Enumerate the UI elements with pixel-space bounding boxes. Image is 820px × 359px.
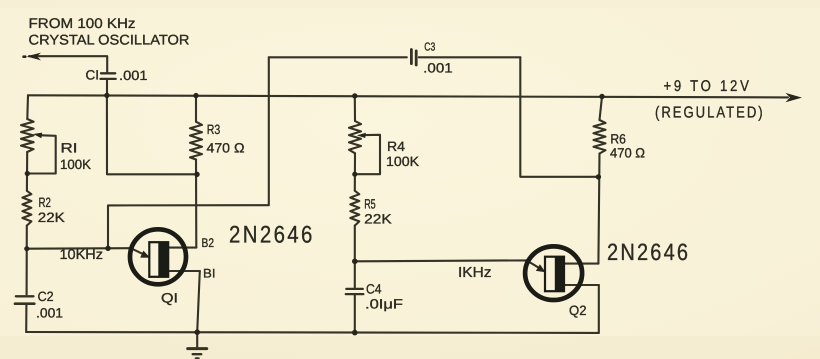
svg-text:CRYSTAL OSCILLATOR: CRYSTAL OSCILLATOR (29, 32, 190, 48)
svg-text:FROM 100 KHz: FROM 100 KHz (29, 15, 136, 31)
svg-text:C2: C2 (38, 289, 54, 304)
svg-text:470 Ω: 470 Ω (207, 141, 245, 156)
svg-text:IKHz: IKHz (458, 265, 492, 281)
svg-text:470 Ω: 470 Ω (610, 145, 645, 160)
svg-text:BI: BI (203, 267, 216, 281)
svg-text:QI: QI (161, 291, 178, 306)
svg-text:+9 TO 12V: +9 TO 12V (664, 78, 752, 95)
svg-text:R4: R4 (387, 139, 406, 154)
svg-text:100K: 100K (386, 154, 419, 169)
svg-text:22K: 22K (364, 212, 392, 227)
svg-text:R3: R3 (207, 122, 221, 137)
svg-text:R2: R2 (39, 195, 52, 210)
svg-text:10KHz: 10KHz (60, 246, 104, 262)
svg-text:.001: .001 (423, 60, 453, 75)
svg-text:22K: 22K (38, 210, 65, 225)
svg-text:RI: RI (61, 140, 78, 155)
svg-text:100K: 100K (60, 157, 91, 172)
svg-text:(REGULATED): (REGULATED) (655, 104, 765, 121)
svg-text:2N2646: 2N2646 (607, 239, 690, 265)
svg-text:C4: C4 (366, 282, 382, 297)
svg-text:CI: CI (86, 68, 100, 83)
svg-text:.001: .001 (36, 306, 63, 321)
svg-text:2N2646: 2N2646 (229, 222, 315, 249)
svg-text:C3: C3 (424, 42, 435, 54)
svg-text:R5: R5 (364, 197, 376, 212)
svg-text:Q2: Q2 (569, 303, 587, 318)
svg-text:B2: B2 (202, 236, 215, 250)
svg-text:.0IμF: .0IμF (365, 297, 403, 312)
svg-text:.001: .001 (119, 68, 148, 83)
